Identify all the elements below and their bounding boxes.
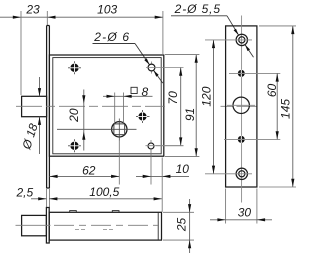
- svg-text:91: 91: [183, 108, 197, 121]
- bottom view: latch head: [22, 215, 47, 235]
- bottom view: lock body bar: [49, 212, 161, 240]
- svg-text:60: 60: [265, 84, 279, 98]
- svg-text:2-Ø 5,5: 2-Ø 5,5: [174, 2, 221, 16]
- dimension Ø18: [19, 77, 41, 154]
- svg-text:103: 103: [97, 2, 117, 16]
- svg-text:100,5: 100,5: [89, 185, 119, 199]
- hole Ø6 top-right: [146, 62, 184, 74]
- svg-text:10: 10: [176, 162, 190, 176]
- spindle square hole: [57, 119, 137, 185]
- dimension 30: [210, 189, 272, 224]
- bottom view: centerline: [16, 224, 51, 226]
- bottom view: post bump 2: [112, 211, 119, 213]
- screw hole top (countersunk): [205, 34, 252, 45]
- label 2-Ø6 with leader: [93, 30, 163, 83]
- svg-text:20: 20: [67, 108, 81, 123]
- dimension 60: [265, 73, 279, 139]
- dimension 120: [199, 40, 215, 174]
- mounting post hole top-left: [68, 61, 81, 74]
- square 8 extension lines: [114, 93, 116, 124]
- dimension 100,5: [49, 185, 162, 200]
- dimension 25: [163, 199, 194, 253]
- svg-text:62: 62: [82, 163, 96, 177]
- svg-text:2-Ø 6: 2-Ø 6: [93, 30, 130, 44]
- svg-text:30: 30: [238, 205, 252, 219]
- faceplate (main view, edge-on strip): [47, 26, 50, 189]
- dimension chain line 23/103: [0, 11, 163, 95]
- dimension 20: [67, 90, 86, 151]
- svg-text:145: 145: [278, 99, 292, 119]
- dimension 8 (square): [103, 85, 153, 99]
- right plate outline: [226, 26, 257, 187]
- hole bottom-right: [146, 140, 184, 185]
- extension for 70 dim bottom handled above; 70 top uses hole centerline: [156, 145, 184, 147]
- dimension 70: [166, 68, 182, 146]
- lock body inner cover plate line: [53, 58, 161, 154]
- hole Ø5,5 lower: [224, 136, 280, 143]
- mounting post hole bottom-left: [68, 139, 81, 152]
- bottom view: post bump 1: [70, 211, 77, 213]
- hole Ø5,5 upper: [229, 70, 280, 77]
- svg-text:120: 120: [199, 86, 213, 106]
- label 2-Ø5,5 with leader: [171, 2, 254, 57]
- lock body outer outline: [49, 55, 163, 156]
- latch hole (big circle): [227, 97, 255, 113]
- svg-text:23: 23: [25, 3, 40, 17]
- dimension 2,5: [15, 185, 49, 207]
- mounting post hole middle-right: [136, 110, 150, 123]
- screw hole bottom (countersunk): [205, 168, 252, 179]
- dimension 10: [136, 158, 189, 212]
- dimension 145: [259, 26, 296, 187]
- svg-text:8: 8: [141, 85, 148, 99]
- bottom view: faceplate section: [46, 208, 49, 244]
- dimension 62: [49, 163, 119, 178]
- bottom view: hidden dashes: [75, 229, 86, 231]
- svg-text:70: 70: [166, 91, 180, 105]
- right plate vertical centerline: [241, 16, 243, 203]
- dimension 91: [165, 55, 199, 157]
- bottom view: bar end double line: [157, 212, 159, 240]
- svg-text:25: 25: [174, 218, 188, 233]
- latch axis dashed centerline: [16, 105, 257, 107]
- svg-text:2,5: 2,5: [15, 185, 33, 199]
- latch bolt (main view): [22, 96, 47, 116]
